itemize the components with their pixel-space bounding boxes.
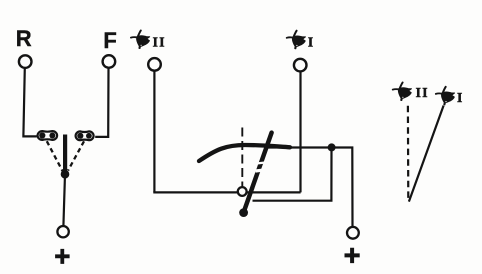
legend position I line [409, 106, 444, 202]
terminal + (right) [347, 227, 359, 239]
plus sign (left) [55, 249, 70, 264]
contact pair F [76, 131, 94, 140]
plus sign (right) [345, 248, 360, 263]
legend position II dashed [407, 106, 410, 202]
centre rest line [241, 128, 243, 187]
svg-text:II: II [153, 34, 166, 49]
wire from terminal I [299, 72, 301, 193]
contact dot R1 [39, 132, 45, 138]
lever [244, 133, 272, 213]
wiper hub dot [61, 170, 70, 179]
contact dot F1 [77, 133, 83, 139]
lever break 1 [258, 162, 265, 165]
terminal II [148, 58, 161, 71]
lever break 2 [256, 169, 263, 173]
wiper bar [63, 135, 67, 173]
dashed link to R contact [47, 141, 63, 171]
hare II icon [131, 31, 150, 50]
wire hub to + terminal [63, 178, 65, 227]
contact track arc [199, 145, 290, 161]
contact pair R [38, 131, 58, 140]
junction dot [328, 143, 336, 151]
terminal F [103, 55, 116, 68]
svg-text:I: I [308, 34, 313, 49]
hare I legend icon [436, 87, 455, 106]
wire from terminal II [153, 71, 155, 193]
pivot feed wire [153, 191, 300, 193]
hare I icon [287, 31, 306, 50]
terminal I [294, 59, 307, 72]
svg-text:F: F [103, 28, 116, 53]
wire junction to lever [253, 149, 332, 201]
pivot circle [238, 187, 247, 196]
contact dot F2 [86, 133, 92, 139]
svg-text:I: I [457, 90, 462, 105]
lever end dot [239, 208, 248, 217]
track feed wire to + [265, 148, 353, 227]
contact dot R2 [49, 133, 55, 139]
dashed link to F contact [68, 141, 84, 170]
wire F to right contact [95, 68, 108, 137]
svg-text:R: R [16, 26, 32, 51]
terminal R [19, 55, 32, 68]
svg-text:II: II [416, 85, 429, 100]
terminal + (left) [57, 226, 68, 237]
hare II legend icon [393, 83, 412, 102]
wire R to left contact [23, 68, 37, 137]
